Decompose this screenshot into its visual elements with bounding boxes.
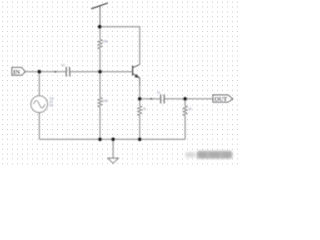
- wire: IN tip to node A: [25, 71, 39, 73]
- rail junction at R2: [98, 138, 102, 142]
- rail junction at R3: [138, 138, 142, 142]
- wire: node D to OUT port: [185, 98, 213, 100]
- wire: node D to R4 top: [184, 99, 186, 106]
- svg-text:1u: 1u: [61, 63, 65, 67]
- wire: VCC node down to R1 top: [99, 27, 101, 40]
- wire: Q1 emitter down to node C: [139, 85, 141, 99]
- wire joint marker on input wire: [54, 71, 56, 73]
- label C1 value 1u: [61, 63, 65, 67]
- svg-text:1u: 1u: [157, 91, 161, 95]
- wire: C2 right plate to node D: [165, 98, 186, 100]
- node C junction: [138, 97, 142, 101]
- transistor Q1: [133, 65, 140, 86]
- wire: node B to Q1 base: [100, 71, 133, 73]
- wire: R1 bottom to node B: [99, 49, 101, 72]
- wire: node C to R3 top: [139, 99, 141, 106]
- wire: R2 bottom to rail: [99, 107, 101, 139]
- node D junction: [183, 97, 187, 101]
- svg-text:0d: 0d: [49, 104, 53, 108]
- wire: R4 bottom to rail: [184, 116, 186, 140]
- label R3 value 1k: [143, 107, 147, 111]
- watermark: [186, 151, 233, 159]
- power supply V+ symbol: [91, 3, 108, 27]
- label C2 value 1u: [157, 91, 161, 95]
- svg-text:1k: 1k: [143, 107, 147, 111]
- capacitor C2: [161, 94, 165, 103]
- resistor R4: [183, 106, 187, 116]
- wire: node A to C1 left plate: [39, 71, 66, 73]
- node B junction: [98, 70, 102, 74]
- node A junction: [38, 70, 42, 74]
- label R2 value 10k: [103, 99, 109, 103]
- AC source V1: [31, 96, 48, 113]
- resistor R2: [98, 97, 102, 107]
- wire: node C to C2 left plate: [140, 98, 161, 100]
- svg-text:10k: 10k: [103, 99, 109, 103]
- wire: VCC node to Q1 collector: [100, 27, 140, 65]
- capacitor C1: [66, 67, 70, 77]
- wire: node B to R2 top: [99, 72, 101, 98]
- label V1 parameters: [49, 97, 54, 108]
- grid dots (decorative): [0, 0, 240, 166]
- svg-text:OUT: OUT: [214, 96, 228, 103]
- wire: R3 bottom to rail: [139, 116, 141, 140]
- resistor R3: [138, 106, 142, 116]
- wire joint marker on output wire: [150, 98, 152, 100]
- node VCC junction: [98, 25, 102, 29]
- label R1 value 10k: [103, 40, 109, 44]
- wire: bottom ground rail: [39, 138, 185, 140]
- svg-text:IN: IN: [13, 69, 20, 76]
- wire: node A down to V1 top: [38, 72, 40, 96]
- wire: V1 bottom to rail: [38, 113, 40, 140]
- svg-text:1k: 1k: [188, 107, 192, 111]
- port IN: [12, 67, 25, 75]
- wire: C1 right plate to node B: [70, 71, 100, 73]
- ground: [108, 139, 118, 163]
- resistor R1: [98, 39, 102, 48]
- port OUT: [213, 95, 233, 103]
- rail junction at ground: [111, 138, 115, 142]
- svg-text:10k: 10k: [103, 40, 109, 44]
- label R4 value 1k: [188, 107, 192, 111]
